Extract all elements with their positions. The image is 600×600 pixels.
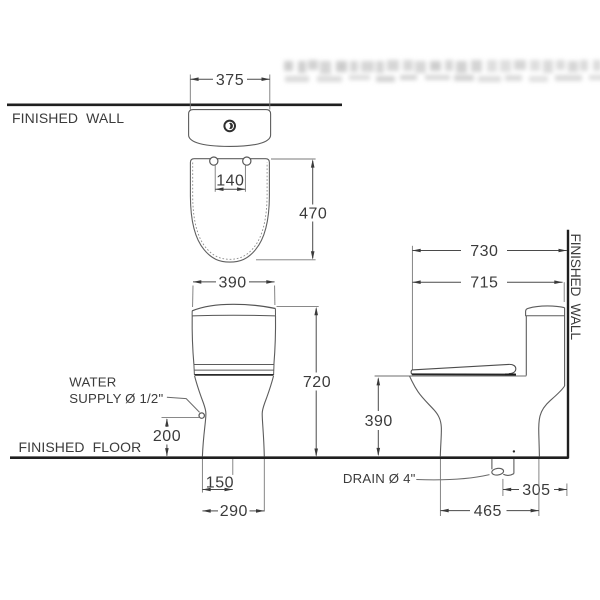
dimension 390 (front view) line and arrows [193,281,216,283]
drain pipe outlet ellipse [491,468,504,476]
dimension 390 (side view) line and arrows [377,379,379,412]
finished wall line (plan view) [7,104,342,107]
svg-text:FINISHED WALL: FINISHED WALL [568,234,583,341]
dimension 465 line and arrows [440,510,470,512]
side view: tank back edge [564,308,566,386]
dimension 375 line and arrows [190,78,213,80]
dimension 375 extension lines [189,75,191,110]
dimension 715 right extension line [563,282,565,302]
dimension 730 left extension line [411,246,413,370]
front view: bowl pedestal right edge [262,376,273,456]
svg-text:465: 465 [474,503,502,520]
svg-text:390: 390 [365,413,393,430]
dimension 150 line and arrows [202,489,232,491]
svg-text:200: 200 [153,428,181,445]
watermark ghost band [284,60,600,82]
side view: hinge dark segment [505,374,516,376]
front view: tank lid side edges [191,311,193,316]
front view: bowl pedestal left edge [195,376,206,456]
front view: tank lid top arc [192,304,275,311]
plan view: flush button crescent [228,123,233,129]
svg-text:730: 730 [470,243,498,260]
svg-text:140: 140 [216,173,244,190]
side view: caulk dot [513,450,515,452]
front view: tank/bowl joint line [195,374,274,376]
svg-text:715: 715 [470,275,498,292]
svg-text:SUPPLY Ø 1/2": SUPPLY Ø 1/2" [69,391,163,406]
side view: tank front edge [525,316,527,376]
svg-text:290: 290 [220,503,248,520]
side view: seat top edge [412,364,516,373]
drain pipe left edge [491,459,493,469]
dimension 390 (front view) extension lines [192,286,194,308]
svg-text:305: 305 [522,482,550,499]
front view: tank base lines [194,364,274,366]
plan view: seat/bowl outline [190,159,269,262]
dimension 470 extension lines [271,158,316,160]
svg-text:390: 390 [218,274,246,291]
dimension 305 extension lines [502,479,504,496]
drain pipe bottom curve [503,474,514,476]
plan view: right bolt hole [243,157,251,165]
finished wall line (side view, vertical) [567,230,569,459]
front view: tank lid bottom line [192,314,275,317]
svg-text:470: 470 [299,206,327,223]
water supply inlet circle [199,413,204,418]
dimension 730 line and arrows [412,250,461,252]
dimension 140 extension lines [214,166,216,192]
dimension 720 line and arrows [315,309,317,373]
dimension 470 line and arrows [312,161,314,205]
dimension 305 line and arrows [503,489,519,491]
front view: tank body sides [192,316,194,364]
dimension 465 extension lines [439,459,441,516]
svg-text:720: 720 [303,374,331,391]
plan view: seat inner dashed line [193,163,267,260]
svg-text:FINISHED WALL: FINISHED WALL [12,110,124,126]
dimension 200 top extension line [162,416,200,418]
finished floor line [10,456,569,459]
side view: bowl back profile [539,386,565,456]
water supply leader line [167,397,200,412]
side view: bowl front profile [410,376,442,456]
svg-text:WATER: WATER [69,375,116,390]
side view: tank lid top [526,306,565,316]
side view: seat bottom dark line [412,373,516,375]
side view: bowl rim line with 390 extension [375,375,527,377]
front view below-floor extension lines [201,459,203,493]
dimension 715 line and arrows [412,281,461,283]
svg-text:375: 375 [216,72,244,89]
drain leader line [416,475,489,480]
dimension 720 top extension line [277,306,319,308]
dimension 200 line and arrows [166,419,168,427]
plan view: cistern tank outline [189,110,271,147]
side view: seat front cap [410,370,413,374]
plan view: flush button ring [224,121,235,132]
plan view: left bolt hole [210,157,218,165]
svg-text:FINISHED FLOOR: FINISHED FLOOR [19,439,142,455]
dimension 140 line and arrows [215,188,245,190]
dimension 290 line and arrows [202,510,218,512]
svg-text:DRAIN Ø 4": DRAIN Ø 4" [343,471,416,486]
drain pipe right edge [513,459,515,474]
side view: tank lid bottom line [525,315,564,317]
